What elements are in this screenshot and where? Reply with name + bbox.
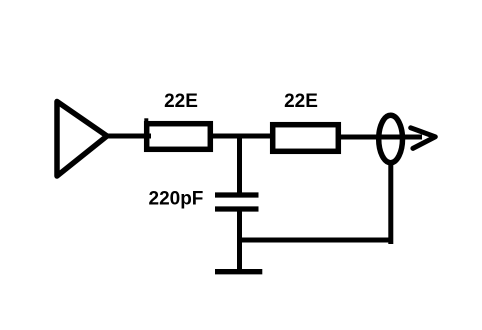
buffer/amplifier triangle	[57, 102, 107, 177]
capacitor C1 bottom plate	[215, 206, 259, 211]
capacitor C1 top plate	[215, 192, 259, 197]
node junction vertical wire to capacitor	[237, 134, 242, 196]
wire R2 to output probe	[341, 135, 422, 140]
svg-text:220pF: 220pF	[149, 189, 204, 210]
wire R1 to R2	[213, 134, 272, 139]
output probe ellipse	[379, 115, 403, 163]
wire capacitor to ground	[237, 209, 242, 272]
wire feedback vertical to probe	[388, 160, 393, 244]
resistor R2	[273, 125, 339, 152]
svg-text:22E: 22E	[284, 91, 318, 112]
output arrow chevron	[411, 128, 436, 149]
paint artifact tick at R1 corner	[144, 118, 148, 122]
svg-text:22E: 22E	[164, 91, 198, 112]
wire feedback horizontal	[237, 238, 393, 243]
resistor R1	[147, 124, 211, 150]
ground bar	[215, 269, 262, 274]
wire triangle output to R1	[104, 134, 151, 139]
